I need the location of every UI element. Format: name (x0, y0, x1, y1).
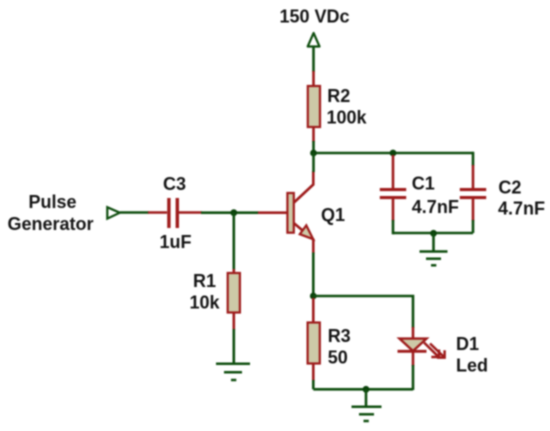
transistor Q1 (287, 171, 313, 254)
svg-text:100k: 100k (327, 108, 368, 128)
node cap ground tap (430, 230, 437, 237)
wire R1 to ground (233, 329, 236, 364)
capacitor C3 (148, 198, 202, 228)
svg-text:Pulse: Pulse (29, 192, 77, 212)
wire emitter rail to LED branch (313, 296, 413, 328)
power arrow VCC (308, 33, 320, 47)
svg-text:1uF: 1uF (160, 232, 192, 252)
resistor R1 (228, 269, 240, 330)
node collector junction (310, 150, 317, 157)
svg-text:C3: C3 (163, 174, 186, 194)
wire C1 bottom (392, 220, 395, 234)
wire base node down to R1 (233, 213, 236, 270)
node base junction (230, 209, 237, 216)
svg-text:4.7nF: 4.7nF (498, 199, 545, 219)
resistor R3 (308, 298, 320, 381)
wire collector to node (312, 153, 315, 172)
svg-text:50: 50 (328, 348, 348, 368)
node C1 tap (390, 150, 397, 157)
D1 cathode lead (412, 351, 415, 366)
wire top rail to capacitors (314, 152, 474, 155)
svg-text:150 VDc: 150 VDc (280, 7, 350, 27)
ground (capacitors) (420, 252, 448, 266)
wire R3 to bottom rail (312, 380, 315, 389)
LED D1 (398, 327, 445, 366)
svg-text:D1: D1 (456, 334, 479, 354)
D1 anode lead (412, 327, 415, 340)
svg-text:4.7nF: 4.7nF (412, 197, 459, 217)
base lead Q1 (258, 211, 288, 214)
wire C3 to base node (201, 211, 259, 214)
svg-text:Generator: Generator (8, 214, 94, 234)
svg-text:R3: R3 (328, 326, 351, 346)
wire emitter down (312, 253, 315, 298)
wire input to C3 (120, 211, 149, 214)
wire R2 to collector node (312, 141, 315, 153)
node emitter junction (310, 293, 317, 300)
D1 triangle (400, 339, 427, 351)
svg-text:C2: C2 (498, 178, 521, 198)
wire C2 drop (472, 153, 473, 166)
capacitor C2 (460, 165, 486, 221)
svg-text:10k: 10k (190, 293, 221, 313)
D1 emission arrow 1 (424, 343, 439, 358)
capacitor C1 (380, 155, 406, 221)
Q1 emitter lead (294, 223, 313, 253)
Q1 base bar (287, 193, 293, 233)
Q1 emitter arrow (300, 225, 313, 239)
wire to cap ground (432, 233, 435, 252)
svg-text:R1: R1 (193, 271, 216, 291)
D1 emission arrow 2 (430, 344, 445, 358)
wire VCC to R2 (312, 47, 315, 72)
wire LED to bottom rail (412, 365, 415, 390)
wire to bottom ground (365, 389, 368, 407)
svg-text:R2: R2 (327, 86, 350, 106)
wire bottom rail (313, 388, 413, 391)
D1 cathode bar (398, 350, 427, 353)
ground (emitter) (352, 407, 382, 421)
ground (R1) (216, 364, 250, 380)
wire capacitor bottom rail (393, 232, 473, 235)
svg-text:C1: C1 (412, 174, 435, 194)
wire C2 bottom (472, 220, 475, 233)
svg-text:Led: Led (456, 356, 488, 376)
node bottom ground tap (363, 386, 370, 393)
input terminal triangle (107, 207, 120, 218)
Q1 collector lead (294, 171, 313, 203)
svg-text:Q1: Q1 (321, 205, 345, 225)
resistor R2 (308, 71, 320, 142)
